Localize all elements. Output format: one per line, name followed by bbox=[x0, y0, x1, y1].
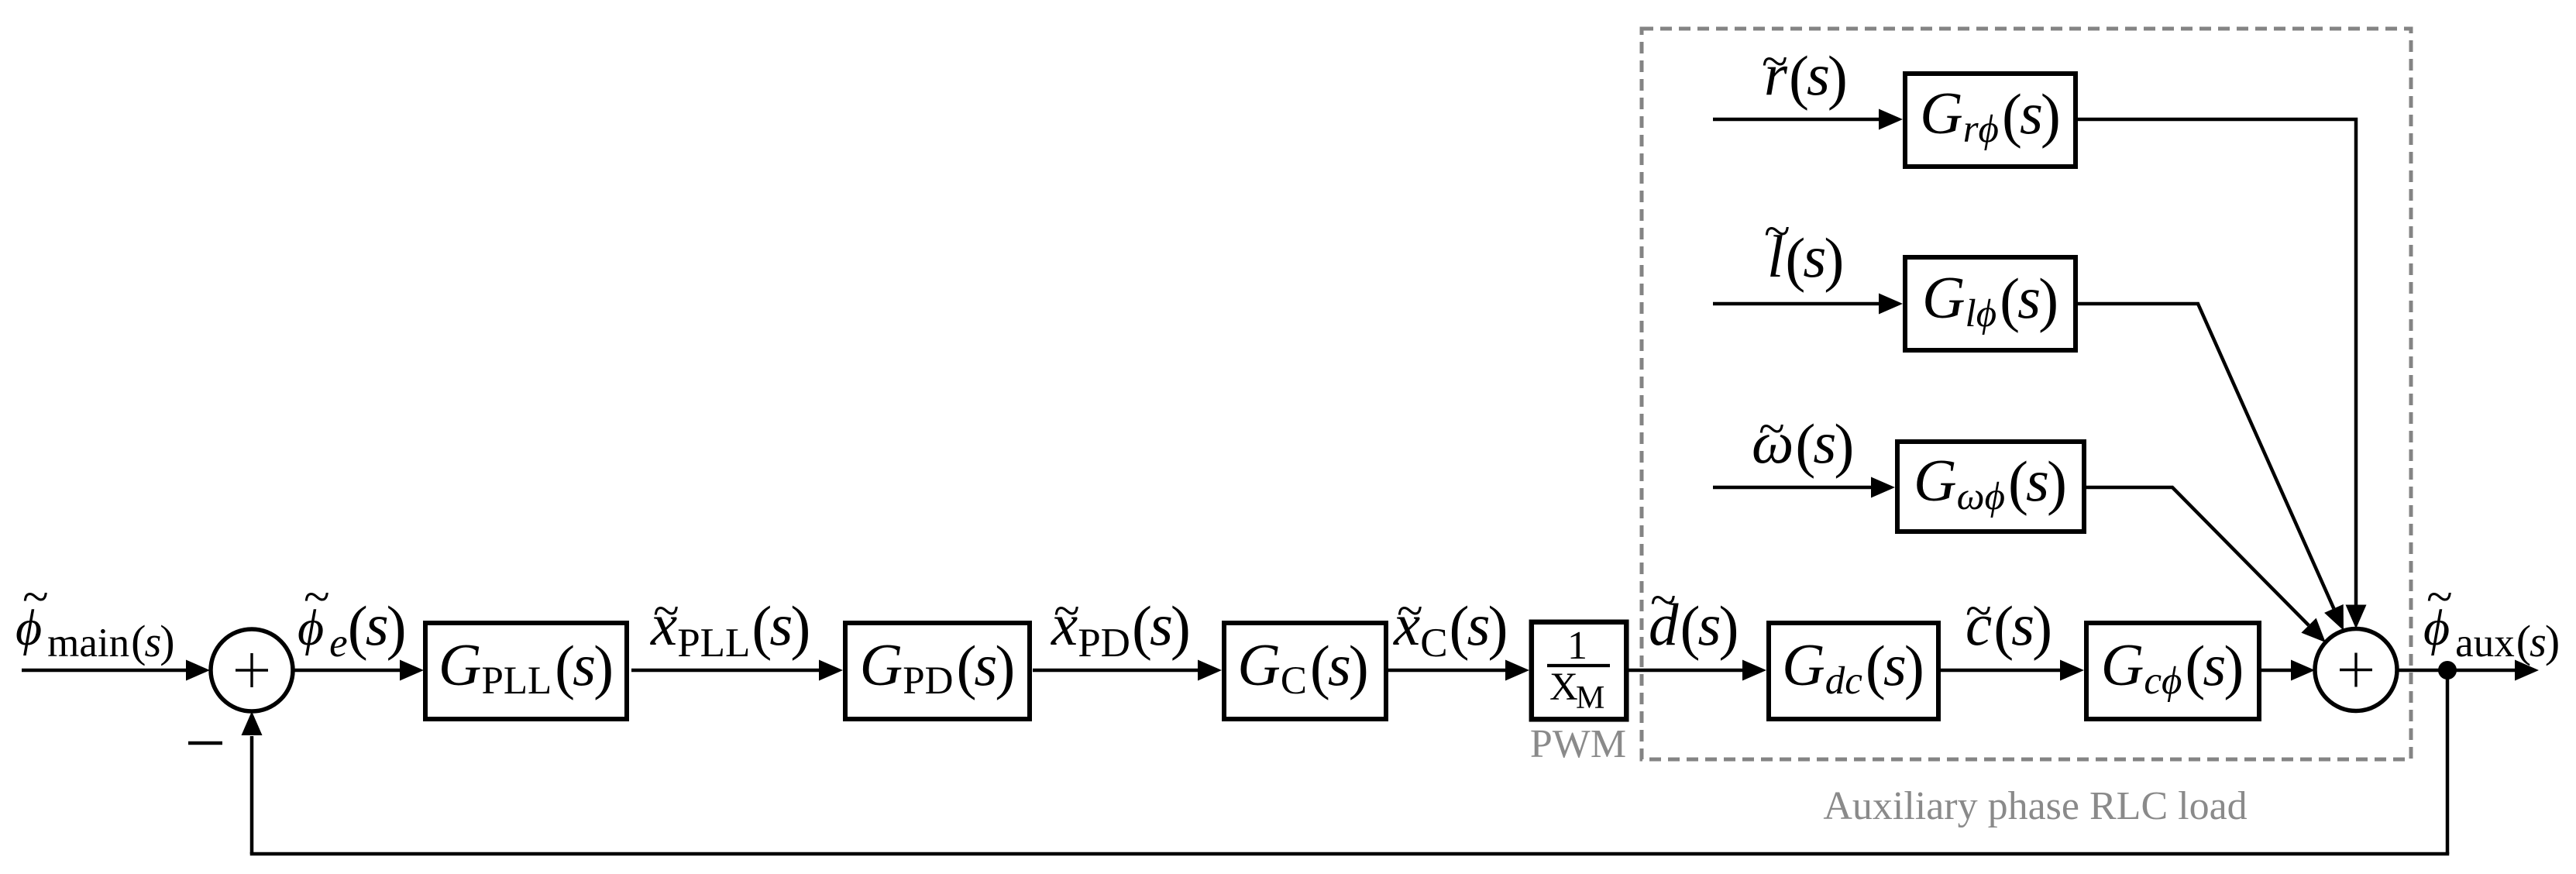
svg-text:~: ~ bbox=[2426, 571, 2452, 624]
arrow into PWM block bbox=[1505, 660, 1529, 681]
arrow into G_dc bbox=[1742, 660, 1766, 681]
block G_rphi bbox=[1905, 74, 2076, 167]
svg-text:~: ~ bbox=[22, 571, 48, 624]
arrow from omega path into S2 bbox=[2301, 618, 2325, 643]
svg-text:M: M bbox=[1576, 680, 1604, 716]
arrow into G_lphi bbox=[1879, 294, 1903, 315]
svg-text:~: ~ bbox=[1763, 205, 1790, 258]
wire G_omegaphi output bbox=[2086, 487, 2309, 625]
block G_PD bbox=[845, 623, 1030, 719]
summing junction S2 bbox=[2315, 629, 2397, 711]
minus sign S1 bbox=[188, 742, 222, 745]
svg-text:Auxiliary phase RLC load: Auxiliary phase RLC load bbox=[1823, 784, 2247, 828]
wire G_PLL to G_PD bbox=[631, 669, 820, 673]
svg-text:X: X bbox=[1549, 666, 1578, 709]
svg-text:~: ~ bbox=[1053, 585, 1079, 638]
wire S2 to output bbox=[2397, 669, 2516, 673]
arrow from r path into S2 top bbox=[2346, 605, 2367, 629]
wire G_dc to G_cphi bbox=[1941, 669, 2061, 673]
block G_lphi bbox=[1905, 257, 2076, 350]
block PWM 1/X_M bbox=[1532, 622, 1627, 720]
arrow into G_PLL bbox=[400, 660, 424, 681]
arrow into S2 from left bbox=[2291, 660, 2315, 681]
arrow into summing junction S1 bbox=[186, 660, 210, 681]
output arrow bbox=[2515, 660, 2539, 681]
svg-text:PWM: PWM bbox=[1530, 722, 1626, 766]
summing junction S1 bbox=[211, 629, 293, 711]
wire G_rphi output bbox=[2078, 119, 2356, 606]
wire PWM block to G_dc bbox=[1628, 669, 1743, 673]
svg-text:~: ~ bbox=[1649, 574, 1676, 627]
arrow into S1 from below bbox=[242, 711, 263, 735]
block G_omegaphi bbox=[1897, 442, 2084, 532]
feedback wire bottom bbox=[250, 852, 2450, 856]
svg-text:1: 1 bbox=[1567, 624, 1587, 668]
arrow into G_omegaphi bbox=[1871, 477, 1895, 498]
wire input r bbox=[1713, 118, 1880, 122]
arrow from l path into S2 bbox=[2324, 604, 2344, 631]
plus sign S2 bbox=[2340, 669, 2372, 671]
arrow into G_cphi bbox=[2060, 660, 2084, 681]
wire input main bbox=[22, 669, 187, 673]
wire G_cphi to summing junction S2 bbox=[2261, 669, 2292, 673]
svg-text:~: ~ bbox=[1761, 36, 1787, 88]
svg-text:~: ~ bbox=[652, 585, 679, 638]
wire G_lphi output bbox=[2078, 304, 2334, 608]
wire input omega bbox=[1713, 486, 1872, 490]
block G_PLL bbox=[425, 623, 627, 719]
arrow into G_rphi bbox=[1879, 109, 1903, 130]
plus sign S1 bbox=[236, 669, 268, 671]
node dot phi_aux bbox=[2438, 661, 2457, 680]
arrow into G_C bbox=[1198, 660, 1222, 681]
feedback wire up to S1 bbox=[250, 736, 254, 854]
wire input l bbox=[1713, 302, 1880, 306]
wire S1 to G_PLL bbox=[293, 669, 401, 673]
block G_C bbox=[1224, 623, 1386, 719]
svg-text:~: ~ bbox=[1396, 585, 1422, 638]
arrow into G_PD bbox=[819, 660, 843, 681]
svg-text:~: ~ bbox=[303, 571, 329, 624]
wire G_C to PWM block bbox=[1388, 669, 1506, 673]
block G_cphi bbox=[2086, 623, 2259, 719]
wire G_PD to G_C bbox=[1033, 669, 1199, 673]
block G_dc bbox=[1769, 623, 1938, 719]
dashed box Auxiliary phase RLC load bbox=[1642, 29, 2411, 759]
svg-text:~: ~ bbox=[1758, 403, 1784, 456]
feedback wire down from node bbox=[2446, 670, 2450, 854]
svg-text:~: ~ bbox=[1965, 585, 1991, 638]
